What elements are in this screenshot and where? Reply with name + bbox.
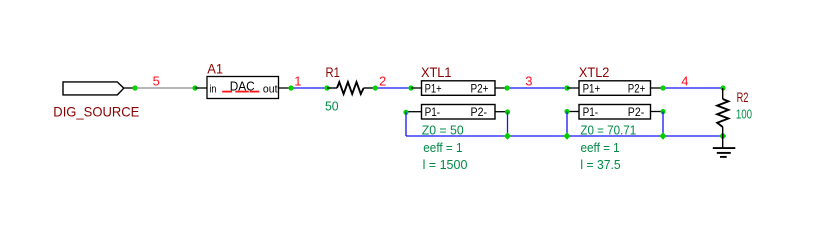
junction dot bbox=[660, 85, 665, 90]
junction dot bbox=[660, 109, 665, 114]
svg-text:XTL1: XTL1 bbox=[421, 64, 452, 80]
svg-text:P2-: P2- bbox=[628, 105, 645, 119]
DAC A1 bbox=[195, 77, 291, 99]
svg-text:5: 5 bbox=[153, 73, 160, 88]
svg-text:R1: R1 bbox=[326, 64, 340, 80]
junction dot bbox=[720, 85, 725, 90]
junction dot bbox=[408, 85, 413, 90]
junction dot bbox=[564, 85, 569, 90]
svg-text:l = 1500: l = 1500 bbox=[423, 157, 468, 172]
junction dot bbox=[564, 109, 569, 114]
XTL1 coupled-line block bbox=[406, 81, 508, 119]
wire net 3 bbox=[507, 87, 567, 89]
wire XTL1 P2- down bbox=[507, 112, 509, 136]
svg-text:4: 4 bbox=[681, 73, 688, 88]
resistor R1 bbox=[327, 82, 375, 94]
svg-text:R2: R2 bbox=[737, 89, 749, 105]
junction dot bbox=[504, 85, 509, 90]
svg-text:P1-: P1- bbox=[583, 105, 599, 119]
junction diamond bbox=[660, 132, 667, 139]
ground bus wire bbox=[406, 135, 723, 137]
svg-text:100: 100 bbox=[736, 106, 752, 121]
wire XTL2 P1- down bbox=[566, 112, 568, 137]
ground bbox=[713, 136, 736, 157]
wire net 2 bbox=[375, 87, 411, 89]
junction dot bbox=[132, 85, 137, 90]
junction dot bbox=[505, 109, 510, 114]
svg-text:P2+: P2+ bbox=[628, 81, 646, 95]
resistor R2 bbox=[717, 88, 728, 136]
svg-text:eeff = 1: eeff = 1 bbox=[581, 140, 620, 155]
wire XTL2 P2- down bbox=[662, 112, 664, 137]
svg-text:2: 2 bbox=[379, 73, 386, 88]
svg-text:l = 37.5: l = 37.5 bbox=[580, 157, 620, 172]
junction dot bbox=[324, 85, 329, 90]
junction dot bbox=[288, 85, 293, 90]
svg-text:A1: A1 bbox=[207, 60, 223, 76]
svg-text:3: 3 bbox=[525, 73, 532, 88]
junction diamond bbox=[719, 132, 726, 140]
port P5 DIG_SOURCE symbol bbox=[63, 82, 135, 95]
junction dot bbox=[192, 85, 197, 90]
junction diamond bbox=[564, 132, 571, 139]
wire net 5 bbox=[135, 87, 195, 89]
svg-text:1: 1 bbox=[294, 73, 301, 88]
svg-text:P1+: P1+ bbox=[583, 81, 601, 95]
svg-text:P1+: P1+ bbox=[425, 81, 442, 95]
svg-text:eeff = 1: eeff = 1 bbox=[423, 140, 462, 155]
XTL2 coupled-line block bbox=[567, 81, 663, 119]
junction dot bbox=[373, 85, 378, 90]
svg-text:P2+: P2+ bbox=[471, 81, 489, 95]
wire net 4 bbox=[663, 87, 723, 89]
svg-text:50: 50 bbox=[325, 99, 339, 114]
svg-text:P2-: P2- bbox=[471, 105, 488, 119]
svg-text:DIG_SOURCE: DIG_SOURCE bbox=[53, 104, 139, 120]
svg-text:XTL2: XTL2 bbox=[579, 64, 610, 80]
svg-text:out: out bbox=[263, 84, 278, 96]
svg-text:in: in bbox=[209, 84, 216, 96]
junction dot bbox=[403, 110, 408, 115]
wire net 1 bbox=[291, 87, 327, 89]
junction diamond bbox=[504, 132, 511, 139]
wire XTL1 P1- down bbox=[405, 112, 407, 136]
svg-text:P1-: P1- bbox=[425, 105, 441, 119]
